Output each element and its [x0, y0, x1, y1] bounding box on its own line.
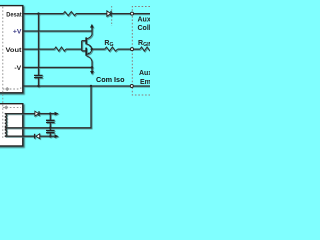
transistor Q1 npn	[82, 40, 86, 42]
wire blanking to com	[38, 78, 40, 86]
svg-text:Aux: Aux	[139, 70, 150, 77]
DC-DC converter T1 box	[0, 104, 23, 146]
wire desat to aux collector	[112, 13, 151, 15]
wire gate to node	[118, 48, 140, 50]
junction emitter node	[91, 48, 94, 51]
svg-text:Em: Em	[140, 79, 150, 86]
capacitor C blank	[34, 75, 43, 77]
wire dcdc common	[5, 86, 91, 128]
channel-2 dashed outline horizontal in T1	[3, 106, 21, 108]
capacitor C4	[49, 128, 51, 130]
junction dcdc bottom	[49, 135, 52, 138]
channel-2 junction mark	[5, 87, 9, 91]
svg-text:Vout: Vout	[6, 47, 23, 54]
gate driver IC U1 box	[0, 6, 23, 93]
node gate	[131, 48, 134, 51]
diode D1 desat	[107, 11, 111, 16]
junction dcdc top	[49, 112, 52, 115]
junction com down	[90, 85, 93, 88]
wire gate	[92, 48, 105, 50]
junction desat blanking	[37, 12, 40, 15]
resistor R desat	[63, 12, 76, 16]
wire desat from pin	[23, 13, 64, 15]
transformer secondary winding	[5, 114, 7, 137]
+V supply arrow	[91, 27, 93, 31]
svg-text:-V: -V	[14, 65, 21, 72]
channel-2 dashed outline vertical	[2, 7, 4, 140]
svg-text:Com Iso: Com Iso	[96, 77, 125, 84]
wire to +V arrow	[39, 113, 54, 115]
base trunk	[81, 41, 83, 51]
node aux emitter	[130, 85, 133, 88]
junction -V collector	[91, 66, 94, 69]
junction dcdc mid	[49, 127, 52, 130]
IGBT module dashed boundary	[132, 7, 150, 96]
channel-2 junction mark 2	[4, 105, 8, 109]
-V supply arrow	[91, 67, 93, 71]
wire dcdc +out	[5, 113, 35, 115]
wire base feed	[66, 48, 82, 50]
resistor RGINT	[140, 47, 150, 51]
wire Vout	[23, 48, 55, 50]
transistor Q2 pnp	[82, 50, 86, 52]
diode D2	[35, 111, 39, 116]
wire blanking vertical	[38, 14, 40, 75]
svg-text:Coll: Coll	[138, 25, 151, 32]
resistor R vout	[54, 47, 66, 51]
wire dcdc -out	[5, 135, 35, 137]
wire to -V arrow	[40, 135, 55, 137]
diode D3	[34, 134, 36, 139]
wire com rail	[23, 85, 150, 87]
svg-text:+V: +V	[13, 28, 22, 35]
resistor RG	[105, 47, 118, 51]
svg-text:Aux: Aux	[138, 17, 151, 24]
wire +V rail	[23, 30, 92, 32]
channel-2 dashed outline horizontal in U1	[3, 86, 21, 89]
svg-text:Desat: Desat	[6, 11, 22, 18]
wire -V	[23, 66, 92, 68]
wire desat to diode	[76, 13, 107, 15]
junction blanking com	[37, 85, 40, 88]
node aux collector	[131, 12, 134, 15]
desat dashed marker line	[111, 6, 113, 26]
capacitor C3	[49, 114, 51, 120]
